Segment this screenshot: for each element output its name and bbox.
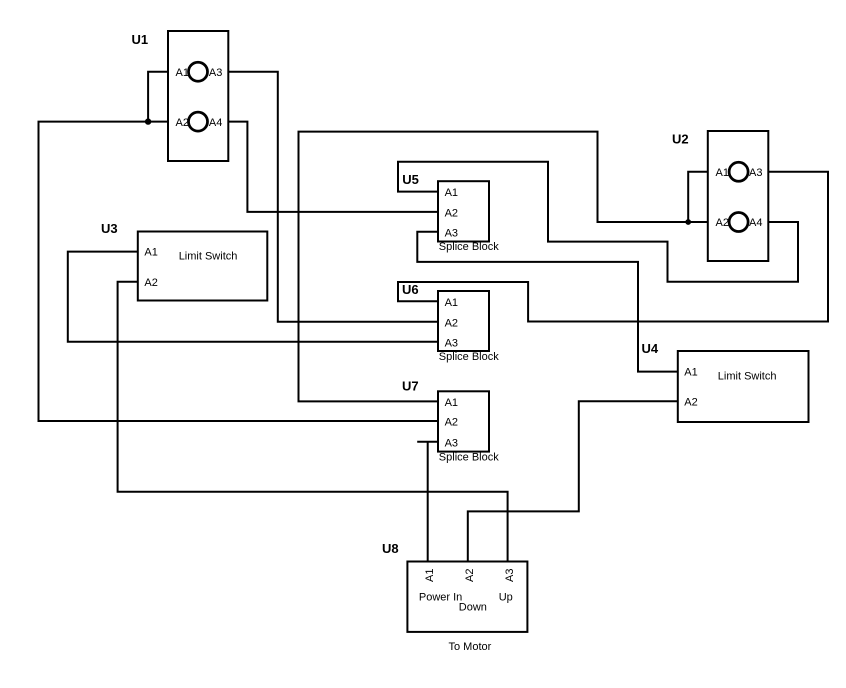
svg-text:U1: U1 xyxy=(132,32,149,47)
svg-text:A3: A3 xyxy=(445,227,458,239)
svg-text:A3: A3 xyxy=(209,67,222,79)
svg-text:A1: A1 xyxy=(424,569,436,582)
svg-text:A2: A2 xyxy=(445,317,458,329)
svg-text:A2: A2 xyxy=(176,117,189,129)
svg-text:U6: U6 xyxy=(402,282,419,297)
svg-text:A1: A1 xyxy=(176,67,189,79)
svg-text:A1: A1 xyxy=(716,167,729,179)
svg-text:Up: Up xyxy=(499,592,513,604)
svg-text:A2: A2 xyxy=(445,417,458,429)
svg-text:A4: A4 xyxy=(749,217,762,229)
svg-text:Splice Block: Splice Block xyxy=(439,241,499,253)
svg-text:U2: U2 xyxy=(672,132,689,147)
svg-text:Splice Block: Splice Block xyxy=(439,351,499,363)
svg-text:U5: U5 xyxy=(402,172,419,187)
svg-text:A4: A4 xyxy=(209,117,222,129)
svg-text:Power In: Power In xyxy=(419,592,462,604)
svg-text:Limit Switch: Limit Switch xyxy=(718,370,777,382)
svg-text:A2: A2 xyxy=(445,207,458,219)
svg-text:A2: A2 xyxy=(464,569,476,582)
svg-text:U4: U4 xyxy=(642,341,659,356)
svg-text:A1: A1 xyxy=(445,187,458,199)
svg-text:A1: A1 xyxy=(445,297,458,309)
svg-text:To Motor: To Motor xyxy=(449,641,492,653)
svg-text:A2: A2 xyxy=(684,396,697,408)
svg-text:A1: A1 xyxy=(144,247,157,259)
svg-text:Splice Block: Splice Block xyxy=(439,451,499,463)
svg-text:A3: A3 xyxy=(445,337,458,349)
svg-text:A1: A1 xyxy=(684,367,697,379)
svg-text:A3: A3 xyxy=(749,167,762,179)
svg-text:U8: U8 xyxy=(382,541,399,556)
svg-text:A3: A3 xyxy=(504,569,516,582)
svg-text:U3: U3 xyxy=(101,221,118,236)
svg-text:A2: A2 xyxy=(144,277,157,289)
svg-text:Limit Switch: Limit Switch xyxy=(179,251,238,263)
svg-text:A2: A2 xyxy=(716,217,729,229)
svg-text:A1: A1 xyxy=(445,397,458,409)
svg-text:Down: Down xyxy=(459,601,487,613)
svg-text:U7: U7 xyxy=(402,379,419,394)
svg-text:A3: A3 xyxy=(445,437,458,449)
